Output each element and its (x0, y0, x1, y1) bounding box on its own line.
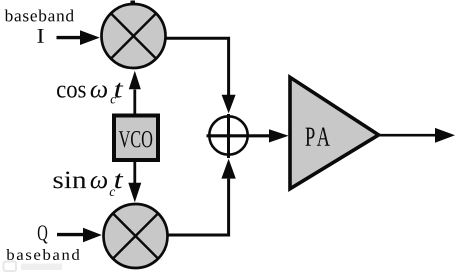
wire mixer M1 output to summer (166, 38, 236, 113)
wire PA output (379, 128, 455, 143)
mixer M1 (I multiplier) (102, 1, 166, 69)
wire VCO to mixer M2 (128, 162, 141, 202)
wire I input (57, 30, 100, 45)
mixer M2 (Q multiplier) (104, 204, 168, 268)
summer S1 (207, 114, 251, 158)
label baseband (Q) (6, 249, 79, 260)
wire Q input (57, 228, 102, 243)
label Q (38, 225, 48, 243)
wire VCO to mixer M1 (129, 71, 141, 114)
oscillator VCO box (114, 116, 158, 161)
label sin wc t (54, 172, 124, 196)
label baseband (I) (5, 10, 74, 22)
amplifier PA (290, 77, 379, 189)
wire mixer M2 output to summer (169, 159, 236, 235)
wire summer to PA (250, 129, 289, 142)
label cos wc t (57, 83, 123, 104)
watermark (4, 262, 63, 272)
label I (37, 29, 43, 43)
